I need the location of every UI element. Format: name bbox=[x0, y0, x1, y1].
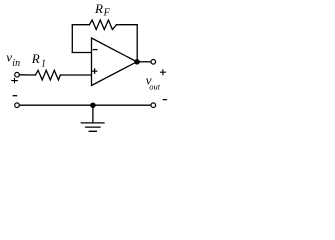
label + (vout polarity) bbox=[160, 69, 166, 75]
op-amp U1 bbox=[92, 38, 137, 86]
node bottom-right terminal bbox=[151, 103, 156, 108]
wire ground stub bbox=[92, 105, 94, 123]
label + (vin polarity) bbox=[11, 78, 18, 83]
svg-text:v: v bbox=[6, 49, 12, 64]
svg-text:R: R bbox=[31, 51, 40, 66]
wire bottom rail bbox=[19, 104, 151, 106]
node bottom-left terminal bbox=[15, 103, 20, 108]
svg-text:1: 1 bbox=[41, 59, 46, 70]
wire feedback right leg bbox=[136, 25, 138, 62]
wire feedback top right bbox=[117, 24, 138, 26]
node output terminal bbox=[151, 60, 156, 65]
node input terminal top-left bbox=[15, 72, 20, 77]
wire input to R1 bbox=[19, 74, 35, 76]
svg-text:R: R bbox=[94, 1, 103, 16]
label - (vout polarity) bbox=[163, 99, 166, 101]
svg-text:out: out bbox=[149, 82, 161, 92]
resistor RF bbox=[89, 20, 116, 30]
svg-text:F: F bbox=[103, 8, 111, 19]
wire R1 to op-amp + input bbox=[60, 74, 91, 76]
wire output bbox=[137, 61, 151, 63]
wire feedback top left bbox=[72, 24, 89, 26]
wire inverting input bbox=[72, 52, 91, 54]
label - (vin polarity) bbox=[13, 95, 16, 97]
node ground junction bbox=[91, 103, 95, 107]
op-amp minus pin label bbox=[93, 49, 97, 51]
svg-text:in: in bbox=[12, 58, 20, 69]
ground bbox=[81, 123, 104, 131]
node output junction bbox=[135, 60, 139, 64]
wire feedback left leg bbox=[71, 25, 73, 53]
op-amp plus pin label bbox=[92, 68, 98, 74]
resistor R1 bbox=[35, 70, 60, 80]
